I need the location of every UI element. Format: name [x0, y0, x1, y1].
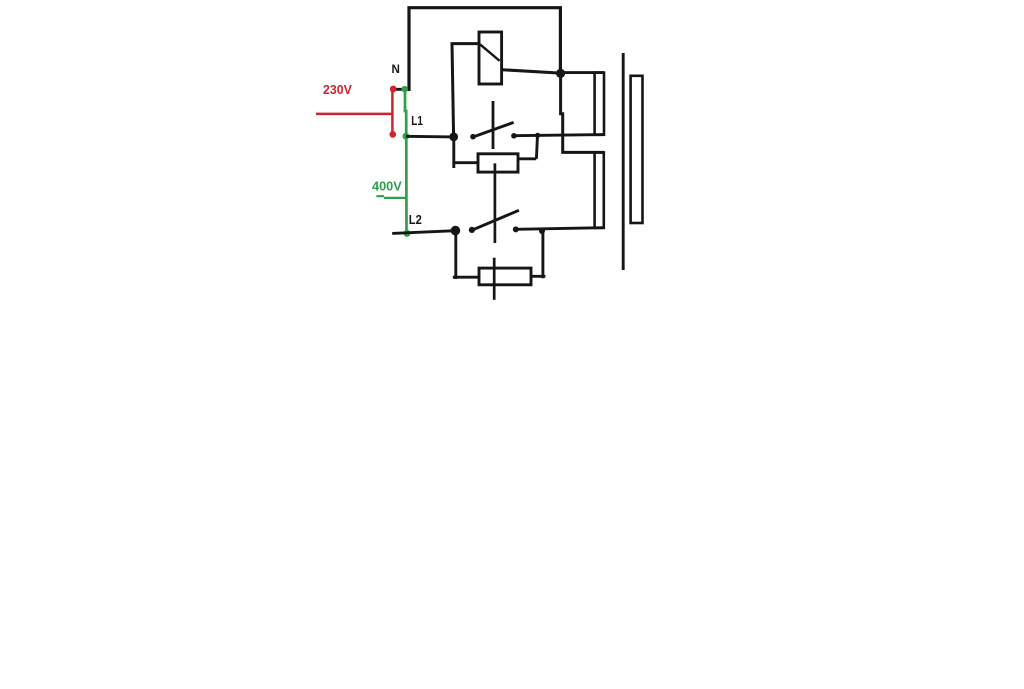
wire top loop [409, 8, 560, 91]
coil R1 [478, 154, 518, 172]
junction L2 [451, 226, 461, 236]
green node dot L2 [404, 230, 411, 237]
coil R2 actuator line [493, 258, 496, 300]
wire L1 row left [406, 135, 454, 138]
wire W1 bottom to L1 row [514, 135, 604, 136]
motor winding W1 [595, 73, 604, 135]
wire coil K1 right lead [502, 70, 561, 73]
wire N node [392, 88, 410, 91]
coil R2 [479, 268, 531, 285]
contactor coil K1 [479, 32, 502, 84]
switch S2 contact right dot [513, 226, 519, 232]
svg-text:230V: 230V [323, 82, 352, 97]
node junction top-right [556, 69, 565, 78]
node R1 to L1 row [535, 133, 540, 138]
green node dot N [401, 86, 408, 93]
node R2 to L2 row [539, 228, 545, 234]
svg-text:L1: L1 [411, 113, 423, 128]
switch S2 contact left dot [469, 227, 475, 233]
wire node to winding W1 [561, 71, 604, 74]
wire W2 bottom to L2 row [516, 228, 604, 230]
wire L2 row left [392, 231, 455, 234]
wire R1 right lead [518, 136, 538, 159]
230V red feed wire [316, 89, 392, 134]
red terminal dot top [390, 86, 397, 93]
coil R1 actuator line [494, 163, 497, 243]
wire R2 left lead down [454, 231, 457, 279]
wire R1 left lead down [452, 137, 455, 168]
switch S1 contact right dot [511, 133, 517, 139]
wire coil K1 left lead [452, 44, 479, 137]
wire node down to winding W2 [561, 73, 604, 152]
switch S1 linkage [492, 101, 495, 149]
svg-text:L2: L2 [409, 212, 422, 227]
400V green lead [376, 196, 405, 198]
switch S2 blade [472, 210, 519, 230]
green node dot L1 [403, 133, 410, 140]
switch S1 contact left dot [470, 134, 476, 140]
motor winding W2 [595, 152, 604, 228]
red terminal dot bottom [389, 131, 396, 138]
wire R2 left lead horizontal [453, 276, 479, 279]
junction L1 [449, 133, 458, 142]
svg-text:400V: 400V [372, 179, 402, 194]
wire R1 left lead horizontal [453, 161, 479, 164]
switch S1 blade [473, 122, 514, 137]
motor rotor winding [631, 76, 643, 223]
svg-text:N: N [392, 64, 400, 76]
green bus wire L1-L2 [405, 89, 407, 236]
motor air-gap bar [622, 53, 625, 270]
wire R2 right lead [531, 231, 545, 278]
